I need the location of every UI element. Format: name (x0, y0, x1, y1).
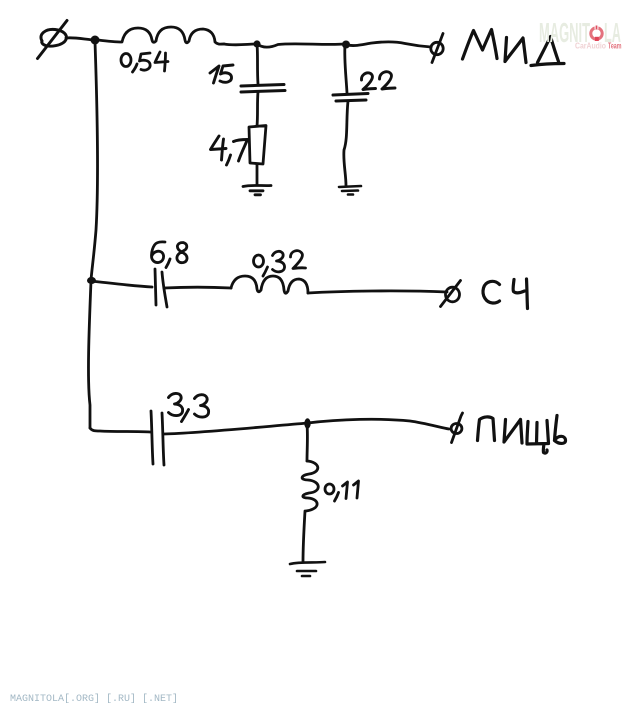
label SCH (Cyrillic handwritten) (483, 279, 527, 309)
label 0,11 (325, 481, 359, 501)
wire node B to node C (257, 44, 345, 47)
capacitor C4 3,3 (151, 411, 164, 465)
wire R1 to ground (256, 164, 259, 185)
wire corner to C4 (90, 428, 150, 432)
capacitor C3 6,8 (155, 269, 167, 307)
capacitor C1 15 (241, 85, 285, 93)
wire node E to PISCH terminal (308, 419, 449, 429)
wire main vertical node D to corner (88, 281, 91, 428)
label 15 (210, 65, 233, 83)
capacitor C2 22 (333, 94, 368, 102)
wire node D to C3 (91, 281, 152, 287)
label 22 (361, 72, 395, 90)
input terminal J1 (38, 21, 68, 59)
label 0,54 (121, 52, 168, 72)
wire L1 to node B (224, 43, 257, 47)
wire main vertical node A to node D (91, 42, 98, 280)
svg-text:Team: Team (608, 42, 622, 51)
wire C3 to L2 (164, 286, 231, 290)
output terminal MID (431, 34, 443, 63)
logo power ring (591, 28, 602, 39)
output terminal PISCH (451, 413, 462, 443)
wire L3 to ground (303, 511, 305, 562)
ground G1 (243, 185, 271, 194)
logo dot (595, 37, 599, 41)
node D (87, 277, 96, 284)
label 0,32 (254, 251, 306, 276)
svg-text:CarAudio: CarAudio (575, 42, 606, 51)
label MID (Cyrillic handwritten) (463, 30, 565, 66)
wire node E to L3 (306, 424, 309, 461)
label 6,8 (152, 242, 188, 268)
wire C1 to R1 (257, 92, 258, 126)
watermark logo MAGNITOLA (539, 17, 622, 51)
svg-text:MAGNITOLA[.ORG] [.RU] [.NET]: MAGNITOLA[.ORG] [.RU] [.NET] (10, 693, 178, 705)
label 4,7 (211, 136, 248, 165)
wire input to node A (66, 38, 95, 40)
wire L2 to SCH terminal (308, 291, 447, 293)
wire C4 to node E (164, 423, 308, 434)
ground G3 (290, 562, 325, 576)
label 3,3 (169, 393, 209, 421)
node A (91, 36, 100, 45)
wire node C to MID terminal (346, 42, 431, 47)
ground G2 (339, 186, 361, 195)
inductor L2 0,32 (231, 276, 308, 293)
inductor L3 0,11 (302, 461, 318, 511)
inductor L1 0,54 (98, 27, 224, 44)
node B (253, 40, 260, 47)
wire node B to C1 (257, 44, 258, 84)
wire C2 to ground (344, 101, 348, 186)
wire node C to C2 (345, 44, 347, 93)
label PISCH (Cyrillic handwritten) (478, 416, 566, 454)
node C (342, 41, 350, 49)
resistor R1 4,7 (249, 126, 266, 165)
output terminal SCH (441, 281, 461, 307)
node E (304, 418, 310, 428)
